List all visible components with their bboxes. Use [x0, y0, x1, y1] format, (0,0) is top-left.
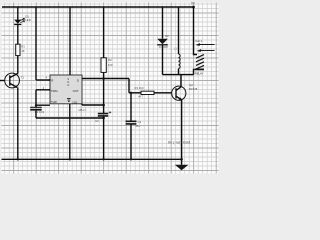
wire R2 to discharge node	[103, 72, 105, 78]
svg-text:THR: THR	[51, 100, 57, 104]
svg-text:1K: 1K	[21, 49, 25, 53]
svg-text:C: C	[67, 83, 69, 87]
svg-text:10u: 10u	[135, 124, 140, 128]
wire relay coil branch from rail	[178, 7, 180, 54]
capacitor C3	[126, 121, 137, 124]
IC U1 555 body	[50, 75, 82, 104]
svg-text:TRIG: TRIG	[51, 89, 59, 93]
svg-text:Coil 1: Coil 1	[195, 39, 202, 43]
wire T1 base to left edge	[0, 80, 5, 82]
wire C3 branch down	[130, 93, 132, 121]
svg-text:10K: 10K	[108, 63, 113, 67]
svg-text:D: D	[77, 79, 79, 83]
wire D2 to collector node	[162, 45, 164, 75]
transistor T1	[5, 73, 20, 88]
wire relay to collector node	[194, 69, 195, 74]
svg-text:C3: C3	[137, 120, 141, 124]
wire top +9V rail	[2, 6, 194, 8]
wire IC gnd pin 1 to ground rail	[69, 104, 71, 160]
svg-text:R3 1K0: R3 1K0	[135, 86, 144, 90]
svg-text:R2: R2	[108, 58, 112, 62]
wire IC pin 5 to left	[36, 104, 50, 106]
wire R1 to T1 collector	[17, 56, 19, 74]
wire diode branch from rail	[162, 7, 164, 39]
pin blob reset	[49, 79, 51, 81]
svg-text:1N4007: 1N4007	[159, 45, 169, 49]
resistor R3	[141, 91, 154, 94]
wire C2 to ground rail	[103, 116, 105, 159]
wire R3 to Q2 base	[154, 92, 172, 94]
wire relay switch branch from 9V node	[193, 7, 195, 45]
svg-text:T1: T1	[21, 76, 25, 80]
LED D1	[14, 18, 24, 24]
IC gnd pin glyph	[67, 99, 71, 102]
wire reset into IC pin 4	[36, 79, 50, 81]
svg-text:D2: D2	[165, 34, 169, 38]
svg-text:4K7: 4K7	[138, 94, 143, 98]
svg-text:LED: LED	[25, 18, 31, 22]
node 9V supply	[192, 6, 195, 9]
diode D2	[157, 39, 168, 45]
svg-text:0v (-ve) Gnd: 0v (-ve) Gnd	[168, 141, 190, 145]
svg-text:OUT: OUT	[73, 89, 79, 93]
wire down to base node	[128, 79, 130, 93]
svg-text:MB1 C: MB1 C	[79, 108, 87, 112]
pin blob trig	[49, 89, 51, 91]
svg-text:DIS: DIS	[73, 100, 78, 104]
capacitor C1	[30, 106, 42, 108]
wire collector node horizontal	[163, 74, 194, 76]
wire Q2 collector	[180, 75, 182, 87]
wire IC dis pin below	[81, 104, 83, 105]
relay core bar	[195, 68, 204, 70]
inductor relay coil L1	[179, 54, 181, 69]
relay coil zigzag	[194, 45, 198, 55]
capacitor C2	[98, 114, 108, 116]
transistor Q2	[172, 86, 186, 100]
wire VCC branch from rail to IC pin 8	[69, 7, 71, 75]
svg-text:RELAY: RELAY	[195, 71, 204, 75]
wire to R3	[129, 92, 141, 94]
wire coil bottom	[178, 69, 180, 75]
wire LED branch from rail	[17, 7, 19, 20]
wire R2 branch from rail	[103, 7, 105, 58]
wire IC discharge pin 7 to right	[82, 78, 129, 80]
wire T1 emitter to ground rail	[17, 88, 19, 160]
wire C1 to bottom-mid wire	[35, 111, 37, 118]
resistor R1	[16, 44, 20, 55]
svg-text:Q2: Q2	[189, 83, 193, 87]
resistor R2	[101, 58, 106, 73]
wire LED to R1	[17, 24, 19, 44]
svg-text:R1: R1	[21, 45, 25, 49]
wire reset branch from rail	[35, 7, 37, 80]
svg-text:BC548: BC548	[189, 87, 198, 91]
wire bottom 0V rail	[2, 158, 182, 160]
ground symbol	[175, 165, 189, 170]
wire Q2 emitter to ground	[181, 100, 183, 165]
wire C3 to ground rail	[130, 125, 132, 160]
wire discharge node down to C2	[103, 79, 105, 114]
wire trig node down	[35, 90, 37, 108]
wire IC trig pin 2	[36, 89, 50, 91]
svg-text:R: R	[51, 79, 53, 83]
wire mid horizontal trig-thr	[36, 117, 104, 119]
svg-text:C2: C2	[95, 119, 99, 123]
